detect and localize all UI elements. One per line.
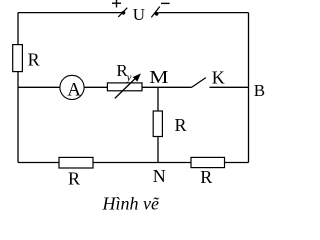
rheostat Rx body <box>107 83 142 91</box>
ammeter A <box>60 75 84 100</box>
terminal + (node) <box>118 8 127 17</box>
svg-text:R: R <box>200 167 212 187</box>
label minus <box>161 2 170 4</box>
svg-text:R: R <box>175 115 187 135</box>
svg-text:Hình vẽ: Hình vẽ <box>102 193 160 213</box>
label Rx <box>116 61 131 84</box>
resistor R3 (bottom left) <box>59 157 93 168</box>
svg-text:M: M <box>149 68 169 88</box>
svg-text:B: B <box>254 81 265 100</box>
wire top right segment <box>158 12 248 14</box>
svg-text:A: A <box>67 79 81 100</box>
switch K lever <box>192 78 206 88</box>
resistor R4 (bottom right) <box>191 157 225 167</box>
svg-text:K: K <box>212 68 225 88</box>
wire right side <box>248 13 250 163</box>
svg-text:R: R <box>28 49 40 69</box>
rheostat arrow <box>115 73 141 98</box>
svg-text:U: U <box>133 5 145 24</box>
svg-text:y: y <box>126 72 132 84</box>
wire bottom <box>18 162 249 164</box>
resistor R2 (vertical branch) <box>153 111 162 137</box>
svg-text:R: R <box>68 168 80 188</box>
wire branch M to N <box>157 87 159 162</box>
terminal - (node) <box>151 7 160 18</box>
wire switch right segment <box>210 86 249 88</box>
wire left side <box>17 13 19 163</box>
wire top left segment <box>18 12 122 14</box>
svg-text:N: N <box>153 166 166 186</box>
resistor R1 (left vertical) <box>13 45 23 72</box>
label + <box>112 0 121 7</box>
wire middle horizontal <box>18 86 192 88</box>
